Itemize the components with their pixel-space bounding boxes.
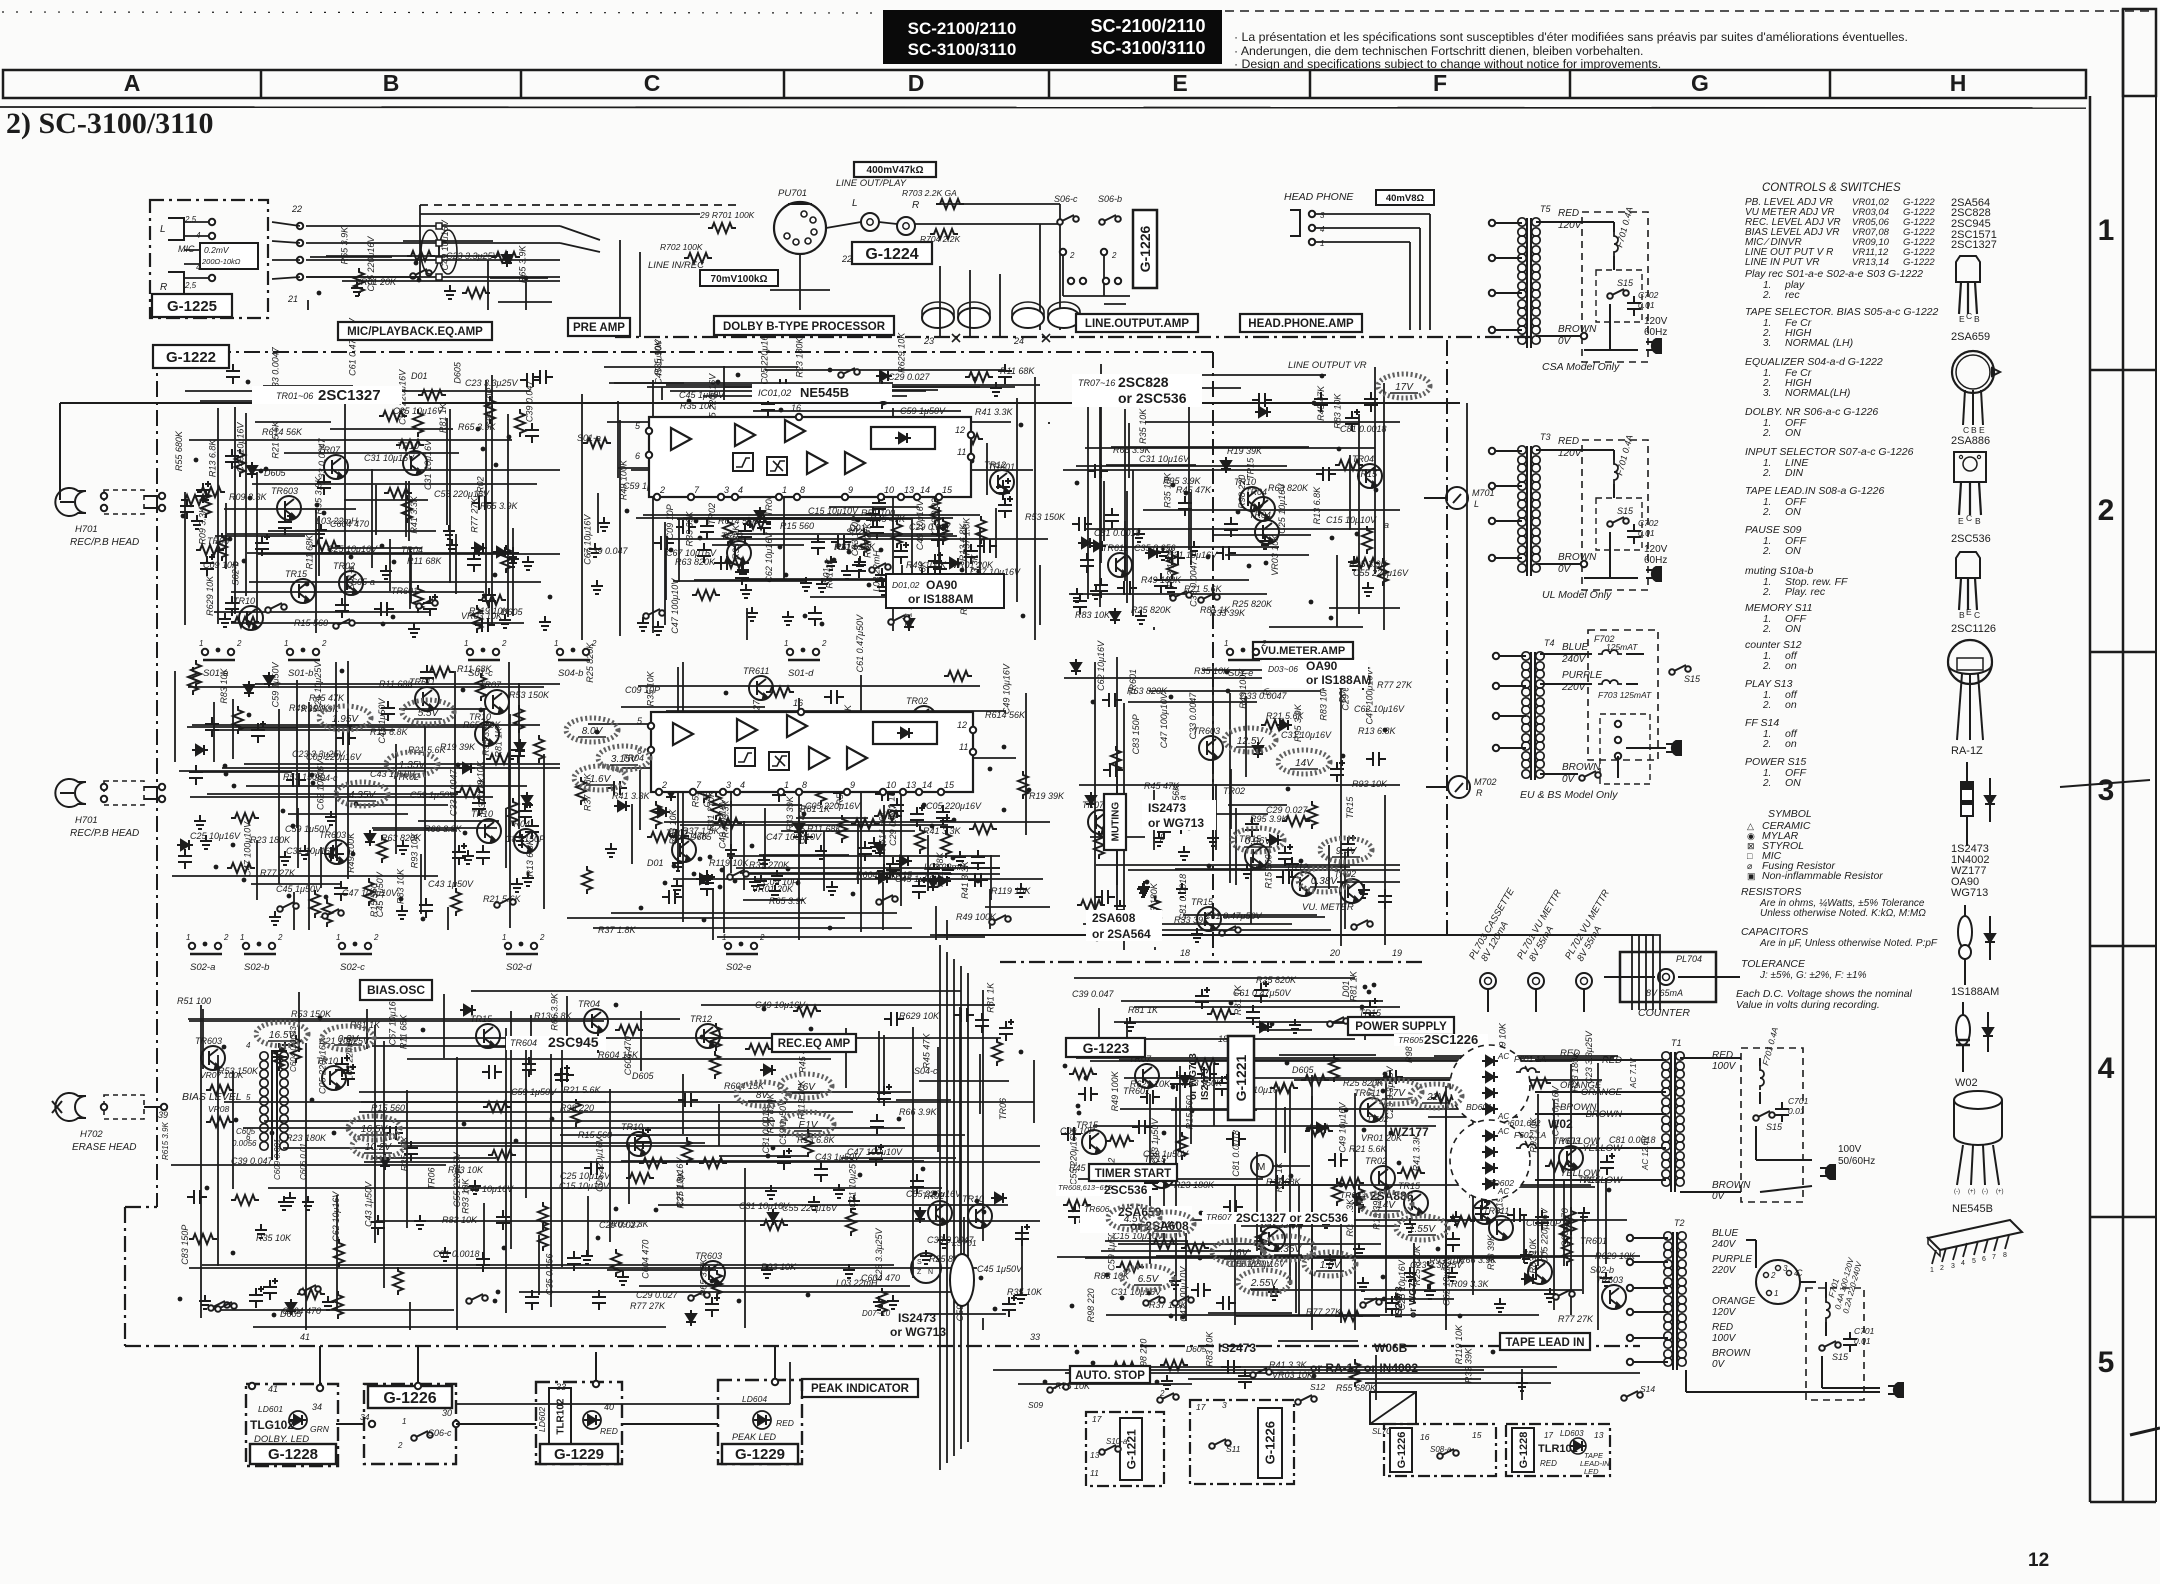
svg-text:BLUE: BLUE — [1562, 642, 1588, 653]
svg-text:18: 18 — [1218, 1034, 1228, 1044]
svg-text:L: L — [160, 224, 166, 235]
svg-text:S15: S15 — [1684, 674, 1701, 684]
svg-text:1.35V: 1.35V — [1275, 1244, 1302, 1255]
svg-text:LD603: LD603 — [1560, 1429, 1584, 1438]
svg-text:R49 100K: R49 100K — [1141, 575, 1182, 585]
svg-text:C55 220μ16V: C55 220μ16V — [782, 1203, 838, 1213]
svg-text:220V: 220V — [1711, 1265, 1737, 1276]
svg-text:C05 220μ16V: C05 220μ16V — [318, 1038, 328, 1094]
svg-text:125mAT: 125mAT — [1606, 642, 1638, 652]
svg-text:S11: S11 — [1226, 1444, 1241, 1454]
svg-text:1.55V: 1.55V — [1409, 1224, 1436, 1235]
svg-text:17: 17 — [1196, 1402, 1206, 1412]
svg-text:2: 2 — [2098, 494, 2115, 527]
svg-text:R63 820K: R63 820K — [1268, 483, 1309, 493]
svg-text:60Hz: 60Hz — [1644, 327, 1667, 338]
svg-text:G-1221: G-1221 — [1233, 1054, 1249, 1101]
svg-text:PEAK INDICATOR: PEAK INDICATOR — [811, 1383, 910, 1395]
svg-text:E: E — [1966, 607, 1972, 617]
svg-text:H: H — [1950, 70, 1967, 96]
svg-text:R98 220: R98 220 — [560, 1103, 594, 1113]
svg-text:C39 0.047: C39 0.047 — [231, 1156, 274, 1166]
svg-text:R37 1.8K: R37 1.8K — [598, 925, 637, 935]
svg-text:2: 2 — [591, 639, 597, 648]
svg-text:2SA886: 2SA886 — [1951, 435, 1990, 447]
svg-text:C25 10μ16V: C25 10μ16V — [1277, 483, 1287, 534]
svg-text:R11 68K: R11 68K — [407, 556, 442, 566]
svg-text:YELLOW: YELLOW — [1560, 1168, 1601, 1179]
svg-text:R49 100K: R49 100K — [906, 560, 947, 570]
svg-text:120V: 120V — [1644, 544, 1668, 555]
svg-text:DOLBY B-TYPE PROCESSOR: DOLBY B-TYPE PROCESSOR — [723, 321, 886, 333]
svg-text:BROWN: BROWN — [1558, 324, 1597, 335]
svg-text:S02-b: S02-b — [244, 962, 269, 973]
svg-text:TAPE LEAD IN: TAPE LEAD IN — [1505, 1337, 1584, 1349]
svg-text:C61 0.47μ50V: C61 0.47μ50V — [855, 614, 865, 672]
svg-text:VR07 100K: VR07 100K — [200, 1070, 244, 1080]
svg-text:PU701: PU701 — [778, 188, 807, 199]
svg-text:C47 100μ10V: C47 100μ10V — [1159, 692, 1169, 748]
svg-text:ORANGE: ORANGE — [1712, 1296, 1756, 1307]
svg-text:S08-a: S08-a — [1430, 1445, 1452, 1454]
svg-text:or 2SC536: or 2SC536 — [1118, 390, 1187, 406]
svg-text:R11 68K: R11 68K — [1000, 366, 1035, 376]
svg-text:R33 39K: R33 39K — [785, 795, 795, 831]
svg-text:D605: D605 — [1186, 1344, 1207, 1354]
svg-text:8V 65mA: 8V 65mA — [1646, 988, 1683, 998]
svg-text:W06B: W06B — [1374, 1341, 1408, 1355]
svg-text:9.4V: 9.4V — [1336, 846, 1358, 857]
svg-text:2.55V: 2.55V — [1250, 1278, 1278, 1289]
svg-text:R49 100K: R49 100K — [289, 703, 330, 713]
svg-text:on: on — [1785, 660, 1797, 672]
svg-text:VR08: VR08 — [208, 1104, 230, 1114]
svg-text:8.0V: 8.0V — [582, 726, 604, 737]
svg-text:1: 1 — [336, 933, 340, 942]
svg-text:G-1228: G-1228 — [268, 1446, 318, 1463]
svg-text:2.: 2. — [1762, 546, 1771, 557]
svg-text:0.38V: 0.38V — [1311, 876, 1338, 887]
svg-text:IS2473: IS2473 — [1200, 1068, 1211, 1100]
svg-text:IS2473: IS2473 — [1148, 801, 1186, 815]
svg-text:C702: C702 — [1638, 290, 1659, 300]
svg-text:TR15: TR15 — [1345, 796, 1355, 819]
svg-text:C609 0.001: C609 0.001 — [273, 1139, 282, 1180]
svg-text:R83 10K: R83 10K — [448, 1165, 484, 1175]
svg-text:5: 5 — [246, 1093, 251, 1102]
svg-text:R98 220: R98 220 — [1086, 1288, 1096, 1322]
svg-text:R21 5.6K: R21 5.6K — [408, 745, 447, 755]
svg-text:D605: D605 — [453, 361, 463, 384]
svg-text:TR06: TR06 — [998, 1098, 1008, 1120]
svg-text:R09 3.3K: R09 3.3K — [1451, 1279, 1490, 1289]
svg-text:2.: 2. — [1762, 428, 1771, 439]
svg-text:2: 2 — [1069, 251, 1075, 260]
svg-text:TR10: TR10 — [397, 441, 419, 451]
svg-text:10: 10 — [886, 780, 896, 790]
svg-text:R21 5.6K: R21 5.6K — [1266, 711, 1305, 721]
svg-text:BROWN: BROWN — [1712, 1180, 1751, 1191]
svg-text:S06-c: S06-c — [428, 1428, 452, 1438]
svg-text:39: 39 — [158, 1110, 168, 1120]
svg-text:MIC/PLAYBACK.EQ.AMP: MIC/PLAYBACK.EQ.AMP — [347, 326, 483, 338]
svg-text:S02-e: S02-e — [726, 962, 751, 973]
svg-text:BROWN: BROWN — [1712, 1348, 1751, 1359]
svg-text:C47 100μ10V: C47 100μ10V — [670, 578, 680, 634]
svg-text:C62 10μ16V: C62 10μ16V — [1441, 1255, 1451, 1306]
svg-text:G-1229: G-1229 — [554, 1446, 604, 1463]
svg-text:L03 22mH: L03 22mH — [316, 516, 358, 526]
svg-text:R65 3.9K: R65 3.9K — [339, 226, 349, 265]
svg-text:F602 1A: F602 1A — [1514, 1130, 1546, 1140]
svg-text:R37 1.8K: R37 1.8K — [675, 1170, 685, 1209]
svg-text:ON: ON — [1785, 623, 1801, 635]
svg-text:C55 220μ16V: C55 220μ16V — [1353, 568, 1409, 578]
svg-text:R19 39K: R19 39K — [1227, 446, 1263, 456]
svg-text:R77 27K: R77 27K — [862, 522, 872, 558]
svg-text:PRE AMP: PRE AMP — [573, 322, 625, 334]
svg-text:R51 100: R51 100 — [177, 996, 211, 1006]
svg-text:100V: 100V — [1712, 1333, 1737, 1344]
svg-text:R45 47K: R45 47K — [1176, 485, 1212, 495]
svg-text:C05 220μ16V: C05 220μ16V — [926, 801, 982, 811]
svg-text:C702: C702 — [1638, 518, 1659, 528]
svg-text:C23 3.3μ25V: C23 3.3μ25V — [874, 1227, 884, 1280]
svg-text:S02-c: S02-c — [340, 962, 365, 973]
svg-text:R83 10K: R83 10K — [1075, 610, 1111, 620]
svg-text:B: B — [1971, 425, 1977, 435]
svg-text:G-1221: G-1221 — [1124, 1429, 1138, 1469]
svg-text:REC/P.B HEAD: REC/P.B HEAD — [70, 828, 139, 839]
svg-text:33: 33 — [556, 1382, 566, 1392]
svg-text:R63 820K: R63 820K — [1127, 686, 1168, 696]
svg-text:S12: S12 — [1310, 1382, 1325, 1392]
svg-text:R83 10K: R83 10K — [1332, 393, 1342, 429]
svg-text:C33 0.0047: C33 0.0047 — [1188, 692, 1198, 740]
svg-text:or IS188AM: or IS188AM — [1306, 673, 1371, 687]
svg-text:LINE OUTPUT VR: LINE OUTPUT VR — [1288, 360, 1367, 371]
svg-text:M: M — [1257, 1162, 1265, 1173]
svg-text:R13 6.8K: R13 6.8K — [370, 727, 409, 737]
svg-text:▣: ▣ — [1747, 871, 1756, 881]
svg-text:2: 2 — [1770, 1271, 1776, 1280]
svg-text:A: A — [124, 70, 141, 96]
svg-text:PEAK LED: PEAK LED — [732, 1432, 777, 1442]
svg-text:S15: S15 — [1617, 278, 1634, 288]
svg-text:R: R — [1476, 788, 1483, 798]
svg-text:2: 2 — [321, 639, 327, 648]
svg-text:TR02: TR02 — [1365, 1156, 1387, 1166]
svg-text:G-1223: G-1223 — [1083, 1040, 1130, 1056]
svg-text:TR611: TR611 — [1102, 543, 1128, 553]
svg-text:D605: D605 — [1292, 1065, 1315, 1075]
svg-text:BROWN: BROWN — [1560, 1102, 1597, 1113]
svg-text:C81 0.0018: C81 0.0018 — [1231, 1130, 1241, 1177]
svg-text:2: 2 — [1261, 639, 1267, 648]
svg-text:1.35V: 1.35V — [399, 760, 426, 771]
svg-text:R614 56K: R614 56K — [985, 710, 1026, 720]
svg-text:TR07: TR07 — [479, 680, 502, 690]
svg-text:16.5V: 16.5V — [361, 1124, 388, 1135]
svg-text:C62 10μ16V: C62 10μ16V — [1096, 640, 1106, 691]
svg-text:C39 0.047: C39 0.047 — [524, 380, 534, 423]
svg-text:6: 6 — [635, 451, 640, 461]
svg-text:17V: 17V — [1395, 382, 1414, 393]
svg-text:R45 47K: R45 47K — [921, 1033, 931, 1069]
svg-text:B: B — [383, 70, 400, 96]
svg-text:IS2473: IS2473 — [1394, 1286, 1405, 1318]
svg-text:100V: 100V — [1838, 1144, 1862, 1155]
svg-text:TR603: TR603 — [195, 1036, 222, 1046]
svg-text:R: R — [160, 282, 167, 293]
svg-text:19: 19 — [1392, 948, 1402, 958]
svg-text:120V: 120V — [1644, 316, 1668, 327]
svg-text:C25 10μ16V: C25 10μ16V — [190, 831, 241, 841]
svg-text:22V: 22V — [1426, 1092, 1446, 1103]
svg-text:BIAS.OSC: BIAS.OSC — [367, 983, 425, 997]
svg-text:RED: RED — [1558, 436, 1579, 447]
svg-text:R77 27K: R77 27K — [260, 868, 296, 878]
svg-text:G: G — [1691, 70, 1709, 96]
svg-text:R21 5.6K: R21 5.6K — [563, 1085, 602, 1095]
svg-text:60Hz: 60Hz — [1644, 555, 1667, 566]
svg-text:or RA-1Z or IN4002: or RA-1Z or IN4002 — [1310, 1361, 1418, 1375]
svg-text:2.: 2. — [1762, 507, 1771, 518]
svg-text:C81 0.0018: C81 0.0018 — [1340, 424, 1387, 434]
svg-text:VU. METER: VU. METER — [1302, 902, 1354, 913]
svg-text:R41 3.3K: R41 3.3K — [409, 495, 419, 534]
svg-text:(+): (+) — [1968, 1189, 1976, 1195]
svg-text:R11 68K: R11 68K — [305, 534, 315, 569]
svg-text:2: 2 — [821, 639, 827, 648]
svg-text:S14: S14 — [1640, 1384, 1655, 1394]
svg-text:2.: 2. — [1762, 661, 1771, 672]
svg-text:TR07~16: TR07~16 — [1078, 378, 1115, 388]
svg-text:on: on — [1785, 738, 1797, 750]
svg-text:Value in volts during reco: Value in volts during recording. — [1736, 999, 1880, 1011]
svg-text:TIMER START: TIMER START — [1095, 1168, 1171, 1180]
svg-text:R13 6.8K: R13 6.8K — [207, 439, 217, 478]
svg-text:70mV100kΩ: 70mV100kΩ — [711, 274, 768, 285]
svg-text:G-1222: G-1222 — [1903, 257, 1935, 268]
svg-text:0.3V: 0.3V — [338, 1034, 360, 1045]
svg-text:RED: RED — [1712, 1050, 1733, 1061]
svg-text:29 R701 100K: 29 R701 100K — [699, 210, 755, 220]
svg-text:TR04: TR04 — [1352, 454, 1374, 464]
svg-text:2SC1327: 2SC1327 — [1951, 239, 1997, 251]
svg-text:1: 1 — [554, 639, 558, 648]
svg-text:120V: 120V — [1558, 448, 1583, 459]
svg-text:C49 10μ16V: C49 10μ16V — [915, 499, 925, 550]
svg-text:R15 560: R15 560 — [371, 1103, 405, 1113]
svg-text:SC-3100/3110: SC-3100/3110 — [908, 40, 1017, 59]
svg-text:D01: D01 — [411, 371, 428, 381]
svg-text:J: ±5%, G: ±2%, F: ±1%: J: ±5%, G: ±2%, F: ±1% — [1759, 970, 1867, 981]
svg-text:T4: T4 — [1544, 638, 1555, 648]
svg-text:2: 2 — [373, 933, 379, 942]
svg-text:ON: ON — [1785, 506, 1801, 518]
svg-text:IC01,02: IC01,02 — [758, 388, 792, 399]
svg-text:41: 41 — [300, 1332, 310, 1342]
svg-text:D602: D602 — [1368, 1114, 1389, 1124]
svg-text:S01-c: S01-c — [468, 668, 493, 679]
svg-text:LS701: LS701 — [952, 1238, 977, 1248]
svg-text:3.: 3. — [1763, 338, 1771, 349]
svg-text:F: F — [1433, 70, 1447, 96]
svg-text:R614 56K: R614 56K — [718, 516, 759, 526]
svg-text:11: 11 — [959, 742, 968, 752]
svg-text:rec: rec — [1785, 289, 1800, 301]
svg-text:3: 3 — [724, 485, 729, 495]
svg-text:C31 10μ16V: C31 10μ16V — [1281, 730, 1332, 740]
svg-text:C67 10μ16V: C67 10μ16V — [388, 994, 398, 1045]
svg-text:C43 1μ50V: C43 1μ50V — [428, 879, 474, 889]
svg-text:41: 41 — [268, 1384, 278, 1394]
svg-text:β: β — [1159, 832, 1165, 842]
svg-text:TR603: TR603 — [1340, 1190, 1366, 1200]
svg-text:C09 10P: C09 10P — [665, 504, 675, 539]
svg-text:R35 10K: R35 10K — [1138, 408, 1148, 444]
svg-text:F703 125mAT: F703 125mAT — [1598, 690, 1652, 700]
svg-text:C: C — [1966, 513, 1972, 523]
svg-text:240V: 240V — [1561, 654, 1587, 665]
svg-text:R11 68K: R11 68K — [379, 679, 414, 689]
svg-text:R09 3.3K: R09 3.3K — [611, 1219, 650, 1229]
svg-text:2.: 2. — [1762, 624, 1771, 635]
svg-text:on: on — [1785, 699, 1797, 711]
svg-text:R93 10K: R93 10K — [409, 832, 419, 868]
svg-text:SC-3100/3110: SC-3100/3110 — [1090, 38, 1205, 58]
svg-text:T5: T5 — [1540, 204, 1551, 214]
svg-text:R65 3.9K: R65 3.9K — [769, 896, 808, 906]
svg-text:C31 10μ16V: C31 10μ16V — [1139, 454, 1190, 464]
svg-text:MUTING: MUTING — [1111, 802, 1122, 842]
svg-text:0.01: 0.01 — [1638, 300, 1655, 310]
svg-text:1.6V: 1.6V — [590, 774, 612, 785]
svg-text:E1V: E1V — [799, 1120, 819, 1131]
svg-text:E: E — [1959, 314, 1965, 324]
svg-text:E: E — [1979, 425, 1985, 435]
svg-text:5.5V: 5.5V — [418, 708, 440, 719]
svg-text:YELLOW: YELLOW — [1560, 1136, 1601, 1147]
svg-text:C605: C605 — [236, 1127, 256, 1136]
svg-text:C47 100μ10V: C47 100μ10V — [242, 821, 252, 877]
svg-text:R45 47K: R45 47K — [1144, 781, 1180, 791]
svg-text:TR15: TR15 — [1355, 469, 1378, 479]
svg-text:△: △ — [1747, 821, 1754, 831]
svg-text:R13 6.8K: R13 6.8K — [525, 838, 535, 877]
svg-text:INPUT SELECTOR S07-a-c G-1: INPUT SELECTOR S07-a-c G-1226 — [1745, 446, 1914, 458]
svg-text:REC.EQ AMP: REC.EQ AMP — [778, 1038, 851, 1050]
svg-text:4: 4 — [740, 780, 745, 790]
svg-text:3: 3 — [726, 780, 731, 790]
svg-text:3: 3 — [1320, 211, 1325, 220]
svg-text:LINE IN PUT VR: LINE IN PUT VR — [1745, 257, 1819, 268]
svg-text:DOLBY. NR S06-a-c G-122: DOLBY. NR S06-a-c G-1226 — [1745, 406, 1878, 418]
svg-text:WZ177: WZ177 — [1390, 1125, 1429, 1139]
svg-text:TR12: TR12 — [690, 1014, 712, 1024]
svg-text:TR603: TR603 — [1596, 1275, 1623, 1285]
svg-text:W02: W02 — [1548, 1117, 1573, 1131]
svg-text:2.: 2. — [1762, 700, 1771, 711]
svg-text:Are in μF, Unless otherwise No: Are in μF, Unless otherwise Noted. P:pF — [1759, 938, 1938, 949]
svg-text:1: 1 — [1774, 1289, 1778, 1298]
svg-text:B: B — [1959, 610, 1965, 620]
svg-text:C05 220μ16V: C05 220μ16V — [1539, 1207, 1549, 1263]
svg-text:16: 16 — [793, 698, 803, 708]
svg-text:R703 2.2K GA: R703 2.2K GA — [902, 188, 957, 198]
svg-text:C55 220μ16V: C55 220μ16V — [452, 1151, 462, 1207]
svg-text:N: N — [928, 1269, 933, 1276]
svg-text:C23 3.3μ25V: C23 3.3μ25V — [292, 749, 345, 759]
svg-text:H701: H701 — [75, 815, 98, 826]
svg-text:120V: 120V — [1712, 1307, 1737, 1318]
svg-text:C47 100μ10V: C47 100μ10V — [342, 888, 398, 898]
svg-text:400mV47kΩ: 400mV47kΩ — [867, 165, 924, 176]
svg-text:R33 39K: R33 39K — [1486, 1234, 1496, 1270]
svg-text:2) SC-3100/3110: 2) SC-3100/3110 — [6, 107, 214, 140]
svg-text:12: 12 — [955, 425, 965, 435]
svg-text:C15 10μ10V: C15 10μ10V — [808, 506, 859, 516]
svg-text:R615 3.9K: R615 3.9K — [161, 1122, 170, 1160]
svg-text:LED: LED — [1584, 1467, 1599, 1476]
svg-text:C29 0.027: C29 0.027 — [888, 372, 931, 382]
svg-text:1: 1 — [199, 639, 203, 648]
svg-text:C604 470: C604 470 — [1560, 1208, 1570, 1247]
svg-text:D01: D01 — [1337, 686, 1347, 703]
svg-text:2: 2 — [501, 639, 507, 648]
svg-text:C45 1μ50V: C45 1μ50V — [977, 1264, 1023, 1274]
svg-text:R81 1K: R81 1K — [1128, 1005, 1159, 1015]
svg-text:TR15: TR15 — [1191, 897, 1214, 907]
svg-text:3.: 3. — [1763, 388, 1771, 399]
svg-text:18: 18 — [1180, 948, 1190, 958]
svg-text:BROWN: BROWN — [1558, 552, 1597, 563]
svg-text:6: 6 — [1982, 1256, 1986, 1263]
svg-text:TR04: TR04 — [508, 819, 530, 829]
svg-text:AC: AC — [1497, 1052, 1509, 1061]
svg-text:D605: D605 — [280, 1309, 303, 1319]
svg-text:BIAS LEVEL: BIAS LEVEL — [182, 1091, 242, 1103]
svg-text:0.01: 0.01 — [1638, 528, 1655, 538]
svg-text:3: 3 — [1783, 1264, 1788, 1273]
svg-text:OA90: OA90 — [1306, 659, 1338, 673]
svg-text:200Ω-10kΩ: 200Ω-10kΩ — [201, 257, 241, 266]
svg-text:RED: RED — [1558, 208, 1579, 219]
svg-text:S15: S15 — [1617, 506, 1634, 516]
svg-text:RESISTORS: RESISTORS — [1741, 886, 1802, 898]
svg-text:C49 10μ16V: C49 10μ16V — [1001, 663, 1011, 714]
svg-text:S15: S15 — [1832, 1352, 1849, 1362]
svg-text:S15: S15 — [1766, 1122, 1783, 1132]
svg-text:C62 10μ16V: C62 10μ16V — [1354, 704, 1405, 714]
svg-text:TR15: TR15 — [470, 1014, 493, 1024]
svg-text:Non-inflammable Resistor: Non-inflammable Resistor — [1762, 870, 1883, 882]
svg-text:C61 0.47μ50V: C61 0.47μ50V — [1233, 988, 1291, 998]
svg-text:TLG102: TLG102 — [250, 1418, 294, 1432]
svg-text:or WG713: or WG713 — [1188, 1053, 1199, 1100]
svg-text:NORMAL(LH): NORMAL(LH) — [1785, 387, 1850, 399]
svg-text:TR607: TR607 — [1206, 1212, 1232, 1222]
svg-text:R23 180K: R23 180K — [250, 835, 291, 845]
svg-text:C59 1μ50V: C59 1μ50V — [410, 790, 456, 800]
svg-text:1: 1 — [284, 639, 288, 648]
svg-text:C15 10μ10V: C15 10μ10V — [1326, 515, 1377, 525]
svg-text:D07~10: D07~10 — [862, 1309, 891, 1318]
svg-text:TR02: TR02 — [707, 503, 717, 525]
svg-text:C23 3.3μ25V: C23 3.3μ25V — [1584, 1030, 1594, 1083]
svg-text:C62 10μ16V: C62 10μ16V — [331, 1191, 341, 1242]
